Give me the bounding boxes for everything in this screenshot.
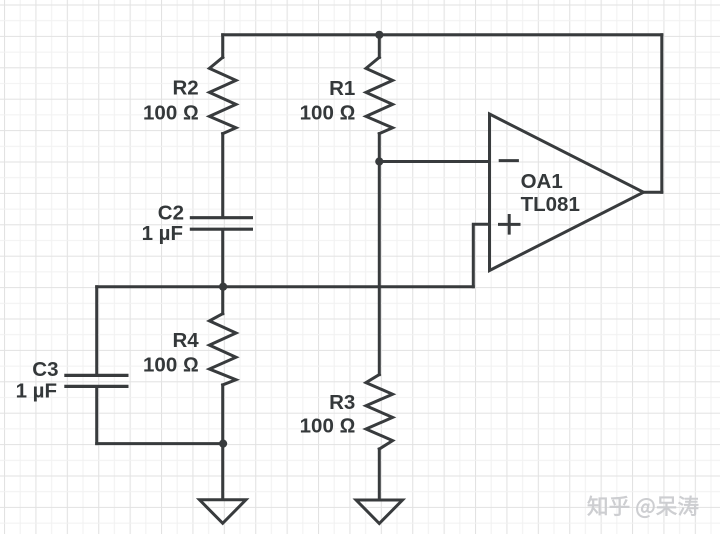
op-amp plus pin mark: [500, 216, 520, 234]
wire R2 top lead: [221, 35, 224, 58]
node mid rail junction: [219, 283, 227, 291]
svg-text:100 Ω: 100 Ω: [300, 101, 356, 124]
resistor R1: [366, 57, 393, 133]
wire to ground GND1: [221, 444, 224, 500]
svg-text:C2: C2: [158, 201, 184, 224]
svg-text:1 µF: 1 µF: [16, 380, 57, 403]
svg-text:R4: R4: [172, 329, 199, 352]
wire top feedback rail: [223, 33, 662, 36]
wire R2 to C2: [221, 134, 224, 217]
resistor R4: [209, 314, 236, 385]
wire bottom rail: [97, 442, 223, 445]
svg-text:100 Ω: 100 Ω: [300, 415, 356, 438]
resistor R3: [366, 375, 393, 449]
watermark zhihu: [588, 496, 699, 518]
wire middle rail to non-inverting input: [97, 285, 474, 288]
node bottom rail junction: [219, 440, 227, 448]
wire inverting input: [379, 160, 489, 163]
wire R1 bottom to R3 top: [378, 134, 381, 375]
svg-text:R1: R1: [329, 77, 355, 100]
svg-text:OA1: OA1: [521, 170, 563, 193]
wire R4 bottom lead: [221, 385, 224, 444]
wire plus input riser: [473, 224, 489, 286]
capacitor C2: [191, 218, 251, 230]
wire right vertical feedback: [660, 35, 663, 193]
ground GND2: [356, 500, 402, 524]
wire C2 to node: [221, 231, 224, 287]
svg-text:100 Ω: 100 Ω: [143, 354, 199, 377]
svg-text:R3: R3: [329, 391, 355, 414]
wire R1 top lead: [378, 35, 381, 58]
svg-text:C3: C3: [32, 358, 58, 381]
resistor R2: [209, 57, 236, 133]
capacitor C3: [66, 375, 127, 386]
svg-text:R2: R2: [172, 77, 198, 100]
wire left branch down to C3: [95, 287, 98, 374]
wire R3 to ground: [378, 449, 381, 500]
ground GND1: [200, 500, 246, 524]
node R1 top junction: [375, 31, 383, 39]
wire C3 to bottom rail: [95, 388, 98, 444]
wire R4 top lead: [221, 287, 224, 314]
svg-text:1 µF: 1 µF: [142, 222, 183, 245]
wire op-amp output stub: [644, 191, 662, 194]
op-amp OA1 triangle: [490, 114, 644, 271]
node inverting input junction: [375, 157, 383, 165]
svg-text:100 Ω: 100 Ω: [143, 101, 199, 124]
svg-text:TL081: TL081: [521, 193, 580, 216]
op-amp minus pin mark: [500, 159, 517, 162]
